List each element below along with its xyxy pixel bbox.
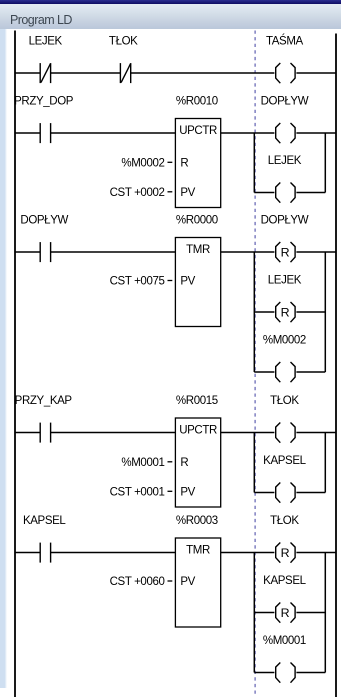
- coil column boundary (dashed): [254, 31, 256, 697]
- wire: [296, 132, 336, 134]
- svg-text:TŁOK: TŁOK: [109, 35, 138, 47]
- svg-text:KAPSEL: KAPSEL: [23, 515, 66, 527]
- contact KAPSEL (NO): [23, 515, 66, 563]
- svg-text:TŁOK: TŁOK: [270, 395, 299, 407]
- wire: [296, 311, 325, 313]
- svg-text:R: R: [281, 246, 290, 260]
- wire: [51, 552, 176, 554]
- svg-text:%R0003: %R0003: [176, 515, 218, 527]
- function block UPCTR U1 (%R0010): [110, 95, 221, 207]
- branch vertical right (rung 3): [324, 252, 326, 372]
- svg-text:DOPŁYW: DOPŁYW: [261, 214, 309, 226]
- function block TMR T1 (%R0000): [110, 214, 221, 326]
- wire: [296, 672, 325, 674]
- wire: [15, 552, 40, 554]
- wire: [15, 251, 40, 253]
- window title bar: [0, 0, 341, 29]
- svg-text:KAPSEL: KAPSEL: [263, 575, 306, 587]
- svg-text:CST +0002: CST +0002: [110, 187, 165, 199]
- svg-text:R: R: [180, 158, 188, 170]
- contact LEJEK (NC): [29, 35, 63, 83]
- svg-text:%R0000: %R0000: [176, 214, 218, 226]
- coil TŁOK (reset): [270, 515, 299, 563]
- branch vertical right (rung 4): [324, 433, 326, 493]
- right power rail: [335, 34, 337, 697]
- contact DOPŁYW (NO): [20, 214, 68, 262]
- branch vertical left (rung 4): [253, 433, 255, 493]
- wire: [15, 132, 40, 134]
- svg-text:CST +0060: CST +0060: [110, 576, 165, 588]
- coil TŁOK: [270, 395, 299, 443]
- wire: [296, 192, 325, 194]
- svg-text:LEJEK: LEJEK: [268, 155, 302, 167]
- wire: [51, 251, 176, 253]
- wire: [51, 432, 176, 434]
- wire: [254, 672, 274, 674]
- svg-text:KAPSEL: KAPSEL: [263, 455, 306, 467]
- svg-text:%M0001: %M0001: [263, 635, 306, 647]
- wire: [51, 72, 121, 74]
- contact TŁOK (NC): [109, 35, 138, 83]
- svg-text:R: R: [281, 306, 290, 320]
- coil DOPŁYW (reset): [261, 214, 309, 262]
- svg-text:%R0015: %R0015: [176, 395, 218, 407]
- wire: [296, 612, 325, 614]
- contact PRZY_DOP (NO): [14, 95, 74, 143]
- wire: [296, 251, 336, 253]
- svg-text:TAŚMA: TAŚMA: [266, 34, 304, 47]
- branch vertical left (rung 3): [253, 252, 255, 372]
- wire: [221, 552, 275, 554]
- branch vertical right (rung 5): [324, 553, 326, 673]
- title text: [10, 13, 72, 27]
- svg-text:TMR: TMR: [186, 544, 210, 556]
- svg-text:PV: PV: [180, 487, 195, 499]
- coil KAPSEL: [263, 455, 306, 503]
- svg-text:%M0002: %M0002: [263, 334, 306, 346]
- wire: [254, 492, 274, 494]
- coil %M0002: [263, 334, 306, 382]
- wire: [296, 371, 325, 373]
- branch vertical right (rung 2): [324, 133, 326, 193]
- svg-text:LEJEK: LEJEK: [29, 35, 63, 47]
- svg-text:CST +0001: CST +0001: [110, 487, 165, 499]
- coil TAŚMA: [266, 34, 304, 83]
- left window edge strip: [0, 29, 7, 688]
- left power rail: [14, 31, 16, 697]
- wire: [296, 432, 336, 434]
- function block UPCTR U2 (%R0015): [110, 395, 221, 507]
- svg-text:LEJEK: LEJEK: [268, 274, 302, 286]
- svg-text:%R0010: %R0010: [176, 95, 218, 107]
- svg-text:UPCTR: UPCTR: [179, 424, 217, 436]
- wire: [221, 251, 275, 253]
- branch vertical left (rung 2): [253, 133, 255, 193]
- title bar top navy border: [0, 0, 341, 4]
- coil LEJEK: [268, 155, 302, 203]
- coil KAPSEL (reset): [263, 575, 306, 623]
- contact PRZY_KAP (NO): [15, 395, 73, 443]
- coil %M0001: [263, 635, 306, 683]
- svg-text:R: R: [180, 457, 188, 469]
- svg-text:PRZY_KAP: PRZY_KAP: [15, 395, 73, 407]
- coil DOPŁYW: [261, 95, 309, 143]
- wire: [296, 492, 325, 494]
- svg-text:DOPŁYW: DOPŁYW: [20, 214, 68, 226]
- svg-text:UPCTR: UPCTR: [179, 125, 217, 137]
- wire: [296, 72, 336, 74]
- svg-text:R: R: [281, 546, 290, 560]
- wire: [131, 72, 275, 74]
- svg-text:PV: PV: [180, 276, 195, 288]
- svg-text:PRZY_DOP: PRZY_DOP: [14, 95, 74, 107]
- wire: [221, 132, 275, 134]
- wire: [15, 72, 40, 74]
- wire: [254, 311, 274, 313]
- wire: [51, 132, 176, 134]
- wire: [254, 371, 274, 373]
- coil LEJEK (reset): [268, 274, 302, 322]
- svg-text:DOPŁYW: DOPŁYW: [261, 95, 309, 107]
- svg-text:TŁOK: TŁOK: [270, 515, 299, 527]
- function block TMR T2 (%R0003): [110, 515, 221, 627]
- wire: [254, 192, 274, 194]
- svg-text:PV: PV: [180, 187, 195, 199]
- svg-text:CST +0075: CST +0075: [110, 276, 165, 288]
- wire: [254, 612, 274, 614]
- svg-text:PV: PV: [180, 576, 195, 588]
- wire: [15, 432, 40, 434]
- svg-text:%M0001: %M0001: [121, 457, 164, 469]
- svg-text:TMR: TMR: [186, 244, 210, 256]
- branch vertical left (rung 5): [253, 553, 255, 673]
- wire: [296, 552, 336, 554]
- svg-text:R: R: [281, 606, 290, 620]
- svg-text:%M0002: %M0002: [121, 158, 164, 170]
- wire: [221, 432, 275, 434]
